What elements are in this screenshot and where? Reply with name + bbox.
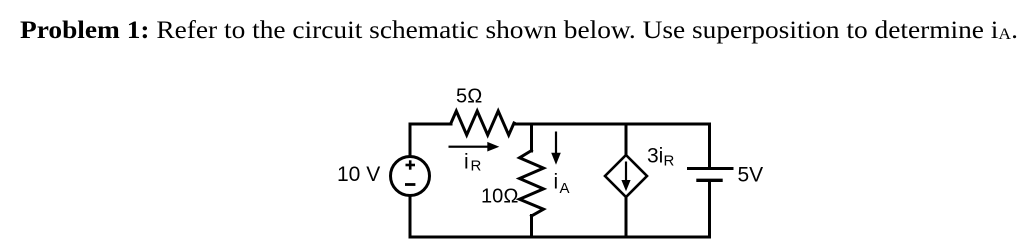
svg-text:3i: 3i xyxy=(647,144,663,167)
resistor R2 10ohm zigzag xyxy=(520,151,544,217)
wire battery bottom lead xyxy=(708,182,711,237)
plus sign of source V1 xyxy=(405,160,415,184)
current arrow iR xyxy=(449,142,500,152)
wire top-left segment xyxy=(410,123,451,126)
battery V2 5V short plate xyxy=(698,179,721,182)
wire dependent source bottom lead xyxy=(625,197,628,237)
wire dependent source top lead xyxy=(625,124,628,155)
svg-text:5V: 5V xyxy=(738,164,764,187)
wire left bottom xyxy=(409,196,412,238)
current arrow iA xyxy=(551,132,561,165)
voltage source V1 10V circle xyxy=(391,157,430,196)
wire 10ohm branch top lead xyxy=(530,124,533,151)
wire top middle segment xyxy=(531,123,626,126)
svg-text:5Ω: 5Ω xyxy=(456,86,482,108)
svg-text:10 V: 10 V xyxy=(337,163,380,186)
svg-text:A: A xyxy=(560,180,570,197)
wire bottom xyxy=(410,236,710,239)
wire 10ohm branch bottom lead xyxy=(530,216,533,238)
wire battery top lead xyxy=(708,124,711,167)
svg-text:R: R xyxy=(471,158,482,175)
wire top right segment xyxy=(626,123,710,126)
dependent source U1 diamond xyxy=(605,155,647,197)
wire left top xyxy=(409,124,412,156)
resistor R 5ohm zigzag xyxy=(451,111,514,135)
battery V2 5V long plate xyxy=(689,167,733,170)
labels xyxy=(337,86,763,208)
wire resistor right lead xyxy=(514,123,531,126)
svg-text:i: i xyxy=(554,171,559,194)
svg-text:10Ω: 10Ω xyxy=(481,186,519,208)
dependent source internal arrow xyxy=(621,162,630,192)
svg-text:R: R xyxy=(664,153,675,170)
minus sign of source V1 xyxy=(405,183,415,186)
svg-text:i: i xyxy=(464,150,469,173)
